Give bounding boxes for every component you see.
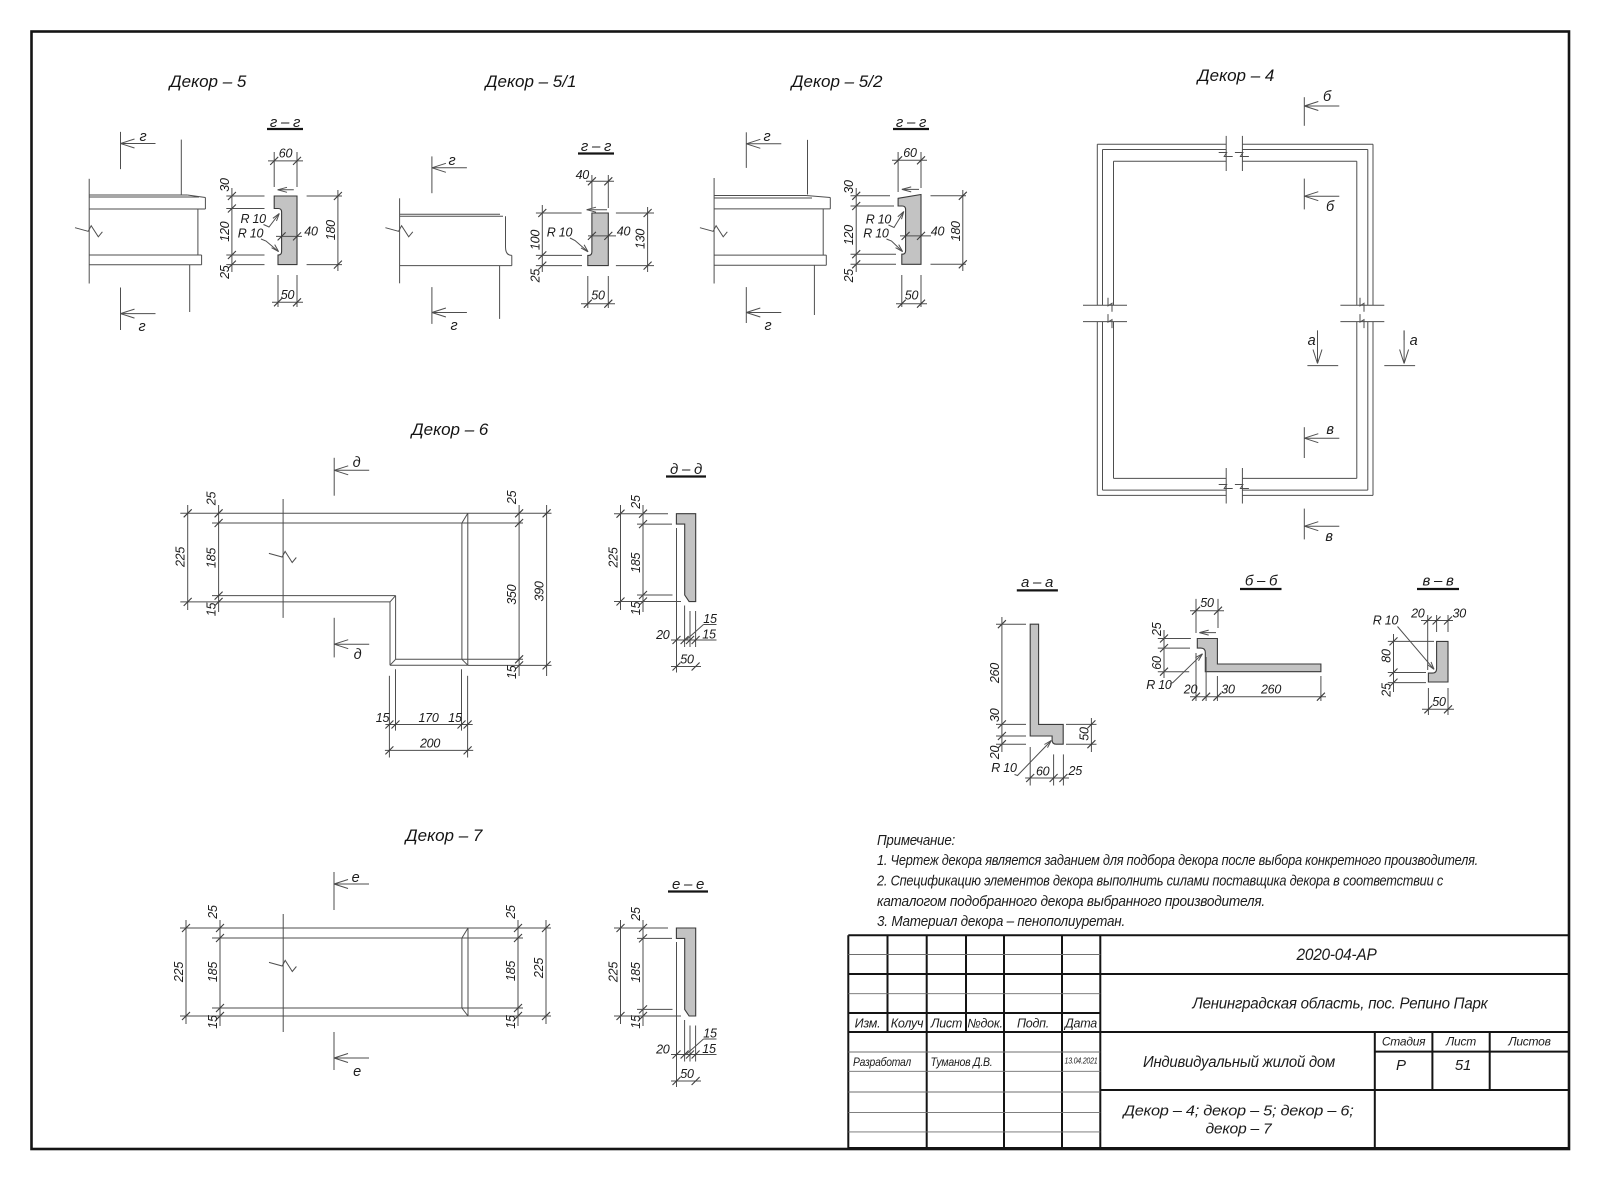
Декор-7 section mark е top: [333, 872, 335, 910]
svg-text:Разработал: Разработал: [853, 1055, 911, 1069]
Декор-5/2 elevation bottom flange: [714, 254, 826, 256]
svg-text:г: г: [765, 318, 772, 334]
svg-text:в: в: [1325, 529, 1333, 545]
svg-text:25: 25: [218, 265, 232, 280]
svg-text:R 10: R 10: [1373, 614, 1399, 628]
svg-text:Колуч: Колуч: [891, 1017, 924, 1031]
svg-text:120: 120: [218, 221, 232, 241]
section б-б dimension 50: [1195, 599, 1197, 633]
Декор-5/2 section mark г bottom: [745, 287, 747, 323]
section е-е bottom extension lines: [676, 942, 678, 1087]
Декор-5/1 left dim chain 100/25: [541, 205, 543, 272]
svg-text:51: 51: [1455, 1057, 1471, 1074]
svg-text:Лист: Лист: [930, 1017, 962, 1031]
svg-text:15: 15: [376, 711, 390, 725]
section д-д bottom extension lines: [676, 528, 678, 673]
Декор-6 section mark д bottom: [333, 618, 335, 658]
Декор-7 plan corner miters: [462, 928, 468, 938]
section а-а left chain 260/30/20: [1001, 617, 1003, 752]
Декор-5/2 elevation top band: [714, 208, 830, 210]
svg-text:120: 120: [842, 225, 856, 245]
svg-text:260: 260: [1260, 683, 1281, 697]
svg-text:170: 170: [418, 711, 438, 725]
svg-text:390: 390: [533, 581, 547, 601]
svg-text:г: г: [449, 153, 456, 169]
svg-text:2. Спецификацию элементов деко: 2. Спецификацию элементов декора выполни…: [876, 874, 1444, 890]
svg-text:Подп.: Подп.: [1017, 1017, 1049, 1031]
svg-text:50: 50: [905, 289, 919, 303]
svg-text:185: 185: [629, 962, 643, 982]
svg-text:20: 20: [655, 1043, 670, 1057]
svg-text:15: 15: [703, 612, 717, 626]
svg-text:40: 40: [304, 225, 318, 239]
Декор-5 view arrow: [278, 189, 294, 191]
Декор-5/1 elevation wall edge below: [499, 266, 501, 319]
Декор-5/1 section mark г top: [431, 156, 433, 193]
Декор-5/2 dimension 50: [901, 275, 903, 307]
svg-text:25: 25: [206, 905, 220, 920]
svg-text:80: 80: [1380, 649, 1394, 663]
section б-б view arrow: [1199, 632, 1216, 634]
svg-text:20: 20: [988, 746, 1002, 761]
Декор-5/1 section mark г bottom: [431, 287, 433, 324]
svg-text:Декор – 7: Декор – 7: [404, 826, 483, 845]
svg-text:б: б: [1326, 199, 1335, 215]
Декор-6 section mark д top: [333, 458, 335, 496]
svg-text:50: 50: [680, 653, 694, 667]
svg-text:50: 50: [1200, 596, 1214, 610]
Декор-5 dimension 50: [277, 275, 279, 307]
Декор-5 elevation top band: [89, 208, 205, 210]
Декор-5 elevation recess edge: [197, 209, 199, 255]
section в-в dimension 50: [1427, 688, 1429, 715]
svg-text:13.04.2021: 13.04.2021: [1065, 1057, 1098, 1066]
svg-text:д: д: [353, 455, 361, 471]
svg-text:50: 50: [1077, 727, 1091, 741]
Декор-7 right chain 25/185/15: [468, 927, 551, 929]
svg-text:15: 15: [504, 1015, 518, 1029]
svg-text:130: 130: [634, 229, 648, 249]
svg-text:30: 30: [1453, 607, 1467, 621]
svg-text:185: 185: [206, 962, 220, 982]
Декор-6 left chain 25/185/15: [218, 505, 220, 612]
Декор-6 plan outer contour: [180, 512, 468, 514]
Декор-5/2 section profile: [898, 195, 921, 265]
section б-б left chain 25/60: [1163, 630, 1165, 678]
Декор-5/1 elevation break zigzag: [385, 226, 412, 237]
svg-text:15: 15: [702, 1042, 716, 1056]
svg-text:Ленинградская область, пос. Ре: Ленинградская область, пос. Репино Парк: [1192, 996, 1489, 1013]
svg-text:60: 60: [1150, 656, 1164, 670]
svg-text:225: 225: [532, 958, 546, 979]
svg-text:б: б: [1323, 89, 1332, 105]
Декор-5 elevation wall left edge: [88, 179, 90, 284]
svg-text:Лист: Лист: [1445, 1035, 1476, 1049]
Декор-5/2 elevation band top lines: [714, 195, 806, 197]
svg-text:е: е: [352, 870, 360, 886]
svg-text:в: в: [1326, 422, 1334, 438]
svg-text:д: д: [354, 647, 362, 663]
svg-text:Изм.: Изм.: [855, 1017, 881, 1031]
Декор-4 bottom break lines: [1225, 468, 1227, 504]
svg-text:1. Чертеж декора является зада: 1. Чертеж декора является заданием для п…: [877, 853, 1478, 869]
svg-text:а – а: а – а: [1021, 574, 1053, 591]
Декор-6 plan corner miters: [462, 513, 468, 523]
svg-text:15: 15: [703, 1027, 717, 1041]
svg-text:50: 50: [1432, 695, 1446, 709]
Декор-5 elevation bottom flange: [89, 254, 201, 256]
svg-text:Стадия: Стадия: [1382, 1035, 1426, 1049]
Декор-5/2 dimension 180: [931, 195, 967, 197]
svg-text:50: 50: [281, 288, 295, 302]
svg-text:225: 225: [607, 962, 621, 983]
svg-text:25: 25: [629, 907, 643, 922]
svg-text:30: 30: [1221, 683, 1235, 697]
svg-text:15: 15: [448, 711, 462, 725]
svg-text:2020-04-АР: 2020-04-АР: [1296, 945, 1378, 964]
Декор-5/1 elevation wall left edge: [399, 198, 401, 283]
svg-text:25: 25: [1068, 764, 1083, 778]
svg-text:№док.: №док.: [967, 1017, 1003, 1031]
svg-text:Туманов Д.В.: Туманов Д.В.: [931, 1055, 993, 1069]
svg-text:15: 15: [505, 665, 519, 679]
svg-text:15: 15: [629, 1015, 643, 1029]
Декор-5/2 elevation wall edge below: [813, 265, 815, 315]
Декор-5 section profile: [274, 196, 297, 265]
svg-text:25: 25: [1380, 683, 1394, 698]
Декор-5 dimension 60: [273, 152, 275, 187]
svg-text:Декор – 6: Декор – 6: [410, 420, 489, 439]
Декор-7 plan inner contour: [212, 937, 462, 939]
svg-text:20: 20: [1410, 607, 1425, 621]
svg-text:50: 50: [591, 289, 605, 303]
svg-text:R 10: R 10: [991, 761, 1017, 775]
section е-е profile: [676, 928, 695, 1016]
svg-text:50: 50: [680, 1067, 694, 1081]
svg-text:Декор – 5/1: Декор – 5/1: [484, 72, 577, 91]
svg-text:25: 25: [504, 905, 518, 920]
svg-text:15: 15: [702, 628, 716, 642]
svg-text:Декор – 5: Декор – 5: [168, 72, 247, 91]
Декор-5/2 left dim chain 30/120/25: [855, 188, 857, 272]
Декор-5/2 elevation recess edge: [822, 209, 824, 255]
svg-text:225: 225: [174, 547, 188, 568]
svg-text:R 10: R 10: [547, 226, 573, 240]
svg-text:Примечание:: Примечание:: [877, 833, 955, 849]
Декор-4 top break lines: [1225, 136, 1227, 171]
Декор-5 section mark г bottom: [120, 288, 122, 331]
svg-text:Листов: Листов: [1507, 1035, 1550, 1049]
section д-д chain 25/185/15: [642, 505, 644, 612]
Декор-5 elevation break zigzag: [75, 226, 102, 237]
section д-д profile: [676, 514, 695, 602]
section е-е chain 20 and leaders 15/15: [671, 1054, 701, 1056]
svg-text:200: 200: [419, 737, 440, 751]
svg-text:30: 30: [988, 708, 1002, 722]
Декор-5/1 section profile: [588, 213, 609, 266]
Декор-5 dimension 40: [276, 235, 302, 237]
svg-text:40: 40: [576, 168, 590, 182]
section б-б bottom chain 20/30/260: [1195, 653, 1197, 701]
Декор-5/2 elevation wall left edge: [713, 178, 715, 284]
Декор-5 elevation wall edge below: [189, 265, 191, 312]
section е-е dimension 50: [671, 1080, 701, 1082]
Декор-5 elevation band top lines: [89, 194, 187, 196]
section а-а dimension 50 right: [1066, 723, 1097, 725]
Декор-6 dimension 390: [546, 505, 548, 676]
title block thin row lines: [848, 955, 1100, 1132]
svg-text:25: 25: [1150, 622, 1164, 637]
section в-в profile: [1428, 641, 1448, 682]
svg-text:Р: Р: [1396, 1057, 1406, 1074]
svg-text:каталогом подобранного декора: каталогом подобранного декора выбранного…: [877, 894, 1265, 910]
svg-text:в – в: в – в: [1422, 573, 1454, 590]
svg-text:225: 225: [607, 547, 621, 568]
Декор-5/1 dimension 40 top: [591, 175, 593, 208]
title block outer thick lines: [848, 935, 1569, 1148]
Декор-5 left dim chain 30/120/25: [231, 188, 233, 272]
svg-text:185: 185: [205, 548, 219, 568]
svg-text:а: а: [1308, 333, 1316, 349]
svg-text:20: 20: [1183, 683, 1198, 697]
Декор-5/2 elevation wall edge above: [807, 140, 809, 195]
svg-text:185: 185: [504, 961, 518, 981]
svg-text:350: 350: [505, 584, 519, 604]
svg-text:25: 25: [205, 492, 219, 507]
svg-text:60: 60: [1036, 765, 1050, 779]
svg-text:г: г: [451, 318, 458, 334]
svg-text:3. Материал декора – пенополиу: 3. Материал декора – пенополиуретан.: [877, 914, 1125, 930]
svg-text:225: 225: [172, 962, 186, 983]
section а-а profile: [1030, 624, 1063, 744]
svg-text:Декор – 4; декор – 5; декор –: Декор – 4; декор – 5; декор – 6;: [1121, 1103, 1353, 1120]
Декор-4 section mark а left: [1317, 331, 1319, 364]
section а-а bottom chain 60/25: [1029, 747, 1031, 786]
svg-text:180: 180: [949, 221, 963, 241]
svg-text:Дата: Дата: [1063, 1017, 1097, 1031]
Декор-7 section mark е bottom: [333, 1032, 335, 1070]
Декор-5/1 view arrow: [587, 209, 607, 211]
svg-text:б – б: б – б: [1245, 573, 1278, 590]
svg-text:Индивидуальный жилой дом: Индивидуальный жилой дом: [1143, 1054, 1336, 1071]
svg-text:260: 260: [988, 663, 1002, 684]
svg-text:25: 25: [505, 490, 519, 505]
section д-д dimension 50: [671, 666, 701, 668]
svg-text:R 10: R 10: [238, 227, 264, 241]
Декор-6 right chain 25/350/15: [468, 512, 552, 514]
svg-text:60: 60: [279, 147, 293, 161]
Декор-6 dimension 200: [385, 749, 473, 751]
Декор-5/2 dimension 60: [897, 152, 899, 192]
Декор-5/1 dimension 50: [587, 276, 589, 308]
svg-text:Декор – 5/2: Декор – 5/2: [790, 72, 883, 91]
Декор-5/1 dimension 40 right: [588, 235, 616, 237]
svg-text:25: 25: [528, 269, 542, 284]
Декор-7 break line: [282, 914, 284, 1032]
svg-text:30: 30: [842, 180, 856, 194]
Декор-5/2 section mark г top: [745, 132, 747, 168]
section е-е dimension 225: [620, 920, 622, 1024]
section е-е chain 25/185/15: [642, 920, 644, 1026]
section д-д chain 20 and leaders 15/15: [671, 639, 701, 641]
svg-text:декор – 7: декор – 7: [1206, 1121, 1273, 1138]
svg-text:е: е: [353, 1064, 361, 1080]
Декор-6 break line: [282, 499, 284, 618]
Декор-5 elevation wall edge above: [180, 140, 182, 195]
svg-text:20: 20: [655, 628, 670, 642]
svg-text:г: г: [764, 129, 771, 145]
section в-в left chain 80/25: [1393, 634, 1395, 692]
svg-text:185: 185: [629, 552, 643, 572]
section б-б profile: [1197, 639, 1321, 672]
Декор-4 section mark в bottom: [1303, 509, 1305, 540]
svg-text:15: 15: [629, 602, 643, 616]
svg-text:25: 25: [842, 269, 856, 284]
Декор-4 section mark б inner: [1303, 179, 1305, 210]
svg-text:60: 60: [903, 146, 917, 160]
section в-в top chain 20/30: [1427, 615, 1429, 670]
svg-text:R 10: R 10: [863, 226, 889, 240]
Декор-4 section mark б top: [1303, 97, 1305, 126]
svg-text:г: г: [140, 129, 147, 145]
Декор-5/2 view arrow: [902, 188, 919, 190]
svg-text:Декор – 4: Декор – 4: [1196, 66, 1275, 85]
Декор-4 left break lines: [1083, 304, 1127, 306]
Декор-7 dimension 225 right: [545, 920, 547, 1024]
svg-text:30: 30: [218, 178, 232, 192]
Декор-5/1 dimension 130: [616, 212, 654, 214]
Декор-7 dimension 225 left: [185, 920, 187, 1024]
Декор-5/1 elevation band: [400, 213, 500, 215]
Декор-6 plan inner contour: [212, 522, 462, 524]
Декор-4 frame outer/middle/inner rectangles: [1097, 143, 1226, 145]
svg-text:г: г: [139, 319, 146, 335]
Декор-4 section mark а right: [1403, 331, 1405, 364]
svg-text:а: а: [1410, 333, 1418, 349]
Декор-6 dimension 225 left: [187, 505, 189, 610]
Декор-4 right break lines: [1340, 304, 1384, 306]
svg-text:15: 15: [206, 1015, 220, 1029]
Декор-5/2 dimension 40: [900, 235, 931, 237]
svg-text:R 10: R 10: [1146, 678, 1172, 692]
svg-text:40: 40: [931, 225, 945, 239]
Декор-5 section mark г top: [120, 132, 122, 169]
Декор-7 plan outer contour: [180, 927, 468, 929]
Декор-7 left chain 25/185/15: [219, 920, 221, 1026]
Декор-6 bottom chain 15/170/15: [388, 676, 390, 758]
Декор-5/2 elevation break zigzag: [700, 226, 727, 237]
svg-text:R 10: R 10: [866, 213, 892, 227]
Декор-4 section mark в inner: [1303, 427, 1305, 458]
svg-text:15: 15: [205, 603, 219, 617]
svg-text:40: 40: [617, 225, 631, 239]
section д-д dimension 225: [620, 505, 622, 610]
svg-text:100: 100: [528, 230, 542, 250]
svg-text:25: 25: [629, 495, 643, 510]
svg-text:R 10: R 10: [240, 212, 266, 226]
Декор-5 dimension 180: [307, 195, 342, 197]
svg-text:180: 180: [324, 220, 338, 240]
